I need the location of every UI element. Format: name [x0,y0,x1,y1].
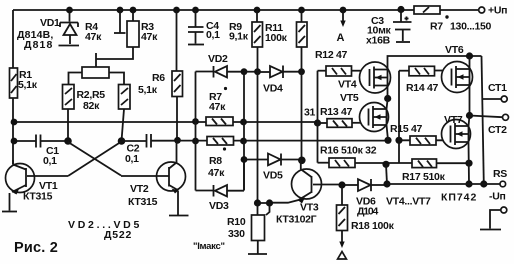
capacitor C4 [188,10,220,44]
node dot C1/R2 junction [11,138,18,145]
wire R3 bottom to R4 wiper [96,47,133,67]
wire coupling row y141 with C1 [14,140,68,142]
resistor R9 [229,10,263,47]
svg-text:VD1: VD1 [40,17,60,29]
wire R11 column to VT3 collector [301,47,303,160]
wire left rail / VT1 collector column [12,10,14,164]
diode VD6 [342,179,387,218]
transistor VT2 KT315 [128,140,186,215]
zener diode VD1 [60,10,78,44]
svg-text:Д104: Д104 [357,206,378,218]
resistor R13 47 [318,106,362,127]
svg-text:R6: R6 [152,72,165,84]
svg-text:0,1: 0,1 [206,29,220,41]
wire top +supply rail [13,9,414,11]
cross-coupling diagonal C2 to VT1 base [27,142,122,177]
transistor VT1 KT315 [6,160,58,211]
cross-coupling diagonal C1 to VT2 base [68,142,169,176]
node dots VT3 emitter row [254,199,261,206]
node dot R9 bottom [254,68,261,75]
resistor R1 [10,68,38,98]
resistor R17 510к [402,159,469,183]
ground common bar VT1 emitter [2,211,17,213]
resistor R3 [127,10,158,47]
node dot RS row VT7 source [465,180,472,187]
svg-text:VT5: VT5 [340,92,359,104]
node dot R11 bottom [298,68,305,75]
ground common bar at x120 [114,32,126,34]
terminal CT2 [470,114,509,136]
ground common bar under C3 [396,41,410,43]
svg-text:"Iмакс": "Iмакс" [193,241,225,252]
wire gate column x317.5 [317,71,319,163]
node dot VD5 left [241,156,248,163]
diode VD4 [258,66,302,95]
node dots R8 row [192,138,199,145]
resistor R18 100к [337,185,395,259]
wire R14/R17 column x399 [398,71,400,163]
svg-text:VD4: VD4 [263,83,283,95]
svg-text:СТ2: СТ2 [488,124,507,136]
wire rail from R7 to +Un terminal [440,9,479,11]
svg-text:VT3: VT3 [300,202,319,214]
node junction dots on top rail [66,7,73,14]
wire R8 row y141 [178,139,444,141]
wire VT6 drain/source column [469,56,471,116]
node dots row y122 [11,119,18,126]
transistor VT3 KT3102 [270,160,343,226]
svg-text:R10: R10 [227,216,246,228]
svg-text:330: 330 [228,228,245,240]
node dot VD2 right [241,68,248,75]
svg-text:47к: 47к [208,167,225,179]
resistor R14 47 [399,66,444,94]
svg-text:R13 47: R13 47 [320,106,353,118]
trimmer resistor R4 body [69,67,125,85]
capacitor C1 [36,135,59,168]
node dot R17 right [465,160,472,167]
resistor R16 510к [320,145,412,168]
wire bias row y122 [14,121,318,123]
wire VD2 dot to VD4 [244,71,258,73]
terminal RS [493,168,507,187]
node dot VT3 collector / VD5 right [298,157,306,165]
ground common bar under C4 [188,44,204,46]
svg-text:0,1: 0,1 [125,153,139,165]
svg-text:5,1к: 5,1к [18,79,38,91]
wire VT7 drain up / source down to RS row [469,116,470,185]
wire RS row [387,183,500,185]
node dot VT6 drain [466,52,473,59]
resistor R6 [138,10,183,140]
wire VT5 drain up / source down [387,99,389,141]
svg-text:Д522: Д522 [104,229,131,241]
terminal CT1 [482,82,507,102]
svg-text:КТ3102Г: КТ3102Г [276,214,317,226]
wire column x195.5 VD2/R7/R8/VD3 [195,72,197,191]
node dot VD6 cathode / RS row [383,180,390,187]
resistor R8 47к horizontal [207,137,234,180]
svg-text:VD2: VD2 [208,53,228,65]
wire dot to VD6 row [386,164,387,184]
svg-text:5,1к: 5,1к [138,84,158,96]
svg-text:R8: R8 [209,155,222,167]
node dot VT6 source / VT7 drain / CT2 [466,112,473,119]
transistor VT6 MOSFET [442,44,473,93]
svg-text:47к: 47к [209,101,226,113]
svg-text:х16В: х16В [366,35,391,47]
resistor R7 130...150 horizontal top [414,6,492,33]
svg-text:31: 31 [304,107,316,119]
node dot VT2 collector row [174,137,181,144]
diode VD2 [196,53,245,78]
svg-text:VT6: VT6 [445,44,464,56]
node dot on R16 run [382,161,389,168]
ground common bar under R10 [248,253,267,255]
svg-text:R7: R7 [430,21,443,33]
svg-text:VT7: VT7 [444,114,463,126]
wire VT4 drain to top row [388,56,482,70]
resistor R10 330 [193,215,265,254]
svg-text:VD5: VD5 [263,170,283,182]
node A terminal arrow [337,10,346,44]
wire stub to common from rail [119,10,121,33]
node dot VT4 source / VT5 drain [384,95,391,102]
terminal -Un with chassis ground [480,191,507,230]
ground common bar under VD1 [59,45,80,47]
svg-text:КП742: КП742 [441,192,476,204]
svg-text:Рис. 2: Рис. 2 [14,240,58,256]
wire R16 left lead from gate column [318,162,330,164]
svg-text:82к: 82к [83,100,100,112]
svg-text:А: А [337,32,345,44]
svg-text:VT4: VT4 [338,79,357,91]
svg-text:RS: RS [493,168,507,180]
resistor R12 47 [315,49,362,76]
transistor VT7 MOSFET [442,114,471,149]
electrolytic capacitor C3 [366,10,412,47]
transistor VT5 MOSFET [340,92,389,132]
resistor R5 [119,85,131,142]
svg-text:R17 510к: R17 510к [402,171,446,183]
svg-text:130...150: 130...150 [450,21,492,33]
wire R9 column to VT3 emitter row [257,47,259,203]
diode VD5 [244,154,302,182]
svg-text:СТ1: СТ1 [488,82,507,94]
svg-text:R14 47: R14 47 [406,82,439,94]
svg-text:КТ315: КТ315 [128,196,158,208]
resistor R2 [63,85,75,142]
wire emitter row to R10 [258,203,270,215]
svg-text:100к: 100к [265,32,288,44]
transistor VT4 MOSFET [338,62,391,93]
svg-text:47к: 47к [85,31,102,43]
wire right column from drain bus [482,56,484,184]
svg-text:-Uп: -Uп [489,191,506,203]
svg-text:R16 510к 32: R16 510к 32 [320,145,377,157]
svg-text:0,1: 0,1 [43,155,57,167]
diode VD3 [196,160,245,213]
svg-text:КТ315: КТ315 [23,191,53,203]
svg-text:R18 100к: R18 100к [351,220,395,232]
wire VT4 source [387,86,389,99]
resistor R7 47к horizontal [206,87,233,126]
svg-text:47к: 47к [141,31,158,43]
svg-text:9,1к: 9,1к [229,31,249,43]
node dot VT3 base / R18 [338,181,345,188]
node dot RS row right column [480,180,487,187]
capacitor C2 [122,134,178,165]
svg-text:VD3: VD3 [209,200,229,212]
svg-text:+Uп: +Uп [488,5,507,17]
wire column x244 [243,72,245,191]
resistor R15 47 [390,123,436,145]
svg-text:R12 47: R12 47 [315,49,348,61]
svg-text:VT4...VT7: VT4...VT7 [386,196,431,208]
resistor R11 [265,10,307,47]
svg-text:VT2: VT2 [130,183,149,195]
svg-text:R15 47: R15 47 [390,123,423,135]
ground common bar VT2 emitter [169,215,189,217]
terminal +Un [479,5,507,17]
